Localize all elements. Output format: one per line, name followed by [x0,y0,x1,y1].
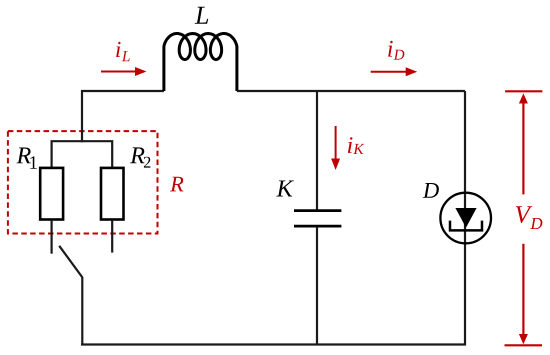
switch S (open blade) [59,246,83,278]
label i_L (L) [122,51,130,61]
resistor R2 [101,168,124,220]
label i_D (i) [388,41,393,57]
wire: capacitor branch lower [316,227,318,346]
wire: right vertical through diode [464,91,466,346]
inductor L [164,34,237,92]
current arrow i_L [101,71,138,73]
label R1 (1) [30,156,37,168]
voltage V_D shaft upper [522,99,524,194]
wire: left vertical + top-left horizontal [82,91,164,142]
wire: capacitor branch upper [316,91,318,210]
label K [276,181,294,197]
current arrow i_D [371,71,408,73]
label R1 (R) [16,148,31,164]
label R2 (2) [144,157,151,168]
label L [195,7,209,24]
current arrow i_K [335,126,337,161]
wire: R1 bottom stub [50,220,52,254]
wire: top horizontal (inductor to right branch) [237,90,465,92]
diode D triangle (anode) [455,208,476,228]
label i_D (D) [394,50,405,60]
resistor R1 [40,168,63,220]
label i_L (i) [116,42,120,57]
diode D circle [440,193,491,244]
label V_D (V) [516,206,533,223]
voltage V_D bottom bar [505,344,543,346]
capacitor K plates [294,209,341,212]
diode D cathode bar with ticks [450,221,482,231]
label i_K (i) [348,137,353,153]
dashed box around R1/R2 (net R) [8,131,158,233]
wire: tee from node to R1/R2 tops [52,141,113,168]
wire: bottom horizontal [81,343,466,345]
label R2 (R) [130,147,144,163]
wire: R2 bottom stub [111,220,113,253]
voltage V_D arrowhead down [519,334,528,344]
wire: bottom-left vertical [81,278,83,346]
label V_D (D) [530,218,542,229]
voltage V_D arrowhead up [519,93,528,103]
voltage V_D shaft lower [522,244,524,340]
label D [423,183,439,198]
label R (red) [170,177,184,192]
label i_K (K) [353,144,364,154]
voltage V_D top bar [505,90,542,92]
